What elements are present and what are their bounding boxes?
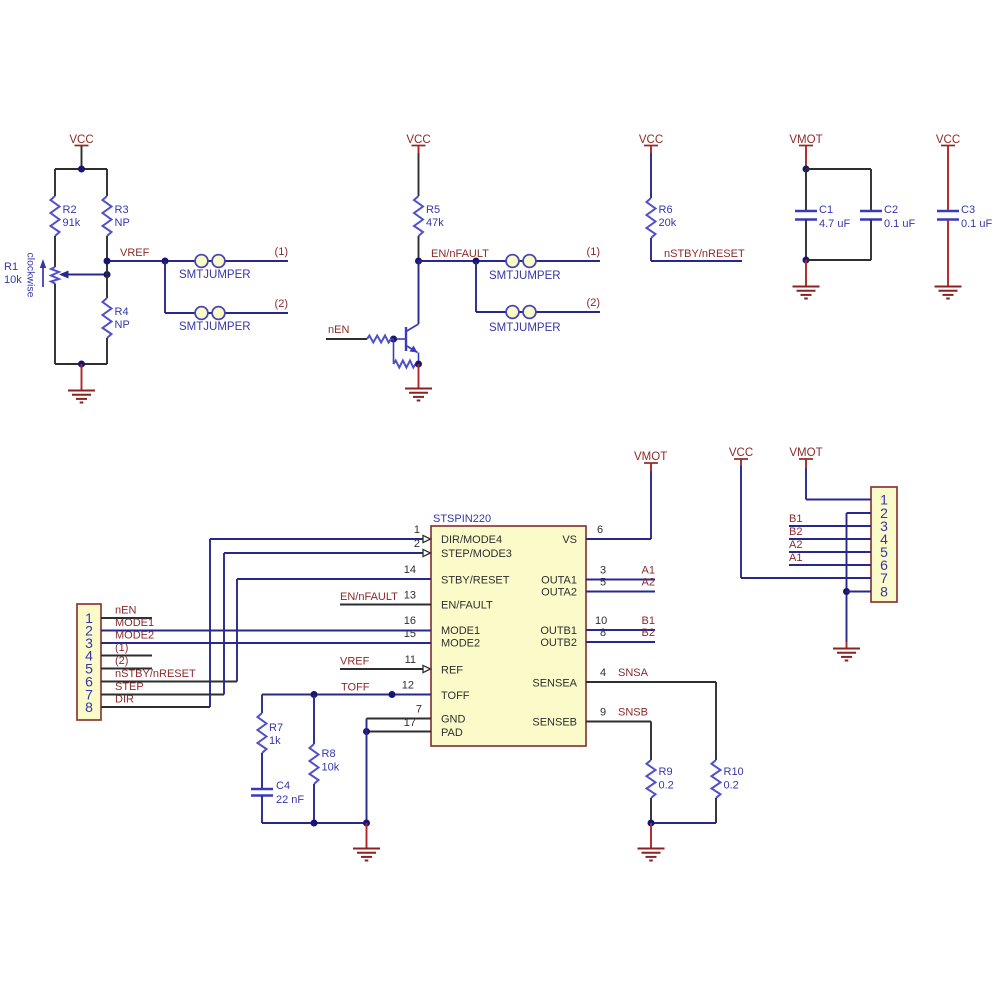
- svg-text:MODE1: MODE1: [115, 617, 154, 629]
- svg-text:STEP: STEP: [115, 681, 144, 693]
- svg-text:nSTBY/nRESET: nSTBY/nRESET: [115, 668, 196, 680]
- svg-text:VMOT: VMOT: [789, 134, 822, 146]
- svg-text:4: 4: [600, 667, 606, 679]
- svg-text:DIR/MODE4: DIR/MODE4: [441, 534, 502, 546]
- svg-text:REF: REF: [441, 665, 463, 677]
- svg-text:TOFF: TOFF: [341, 682, 370, 694]
- svg-text:nSTBY/nRESET: nSTBY/nRESET: [664, 248, 745, 260]
- svg-text:A2: A2: [789, 539, 802, 551]
- svg-text:12: 12: [402, 680, 414, 692]
- svg-text:SENSEB: SENSEB: [532, 717, 577, 729]
- svg-text:EN/nFAULT: EN/nFAULT: [340, 591, 398, 603]
- svg-text:VREF: VREF: [120, 247, 150, 259]
- svg-text:(2): (2): [275, 298, 288, 310]
- svg-text:C2: C2: [884, 204, 898, 216]
- svg-text:91k: 91k: [63, 217, 81, 229]
- svg-text:0.2: 0.2: [724, 780, 739, 792]
- svg-text:TOFF: TOFF: [441, 690, 470, 702]
- svg-text:11: 11: [405, 654, 416, 666]
- svg-text:10k: 10k: [322, 762, 340, 774]
- svg-text:VREF: VREF: [340, 656, 370, 668]
- svg-text:0.2: 0.2: [659, 780, 674, 792]
- svg-text:VCC: VCC: [69, 134, 93, 146]
- svg-text:A1: A1: [642, 565, 655, 577]
- svg-text:9: 9: [600, 707, 606, 719]
- svg-text:R2: R2: [63, 204, 77, 216]
- svg-text:C3: C3: [961, 204, 975, 216]
- svg-text:OUTB1: OUTB1: [540, 625, 577, 637]
- svg-text:MODE2: MODE2: [441, 638, 480, 650]
- svg-text:VCC: VCC: [936, 134, 960, 146]
- svg-text:7: 7: [416, 704, 422, 716]
- svg-text:OUTB2: OUTB2: [540, 637, 577, 649]
- svg-text:8: 8: [600, 627, 606, 639]
- svg-text:VMOT: VMOT: [634, 451, 667, 463]
- svg-text:4.7 uF: 4.7 uF: [819, 218, 850, 230]
- svg-text:C1: C1: [819, 204, 833, 216]
- svg-text:R4: R4: [115, 306, 129, 318]
- svg-text:R5: R5: [426, 204, 440, 216]
- svg-text:A1: A1: [789, 552, 802, 564]
- svg-text:SMTJUMPER: SMTJUMPER: [489, 270, 561, 282]
- svg-text:6: 6: [597, 524, 603, 536]
- svg-text:NP: NP: [115, 319, 130, 331]
- svg-text:0.1 uF: 0.1 uF: [961, 218, 992, 230]
- svg-text:VCC: VCC: [406, 134, 430, 146]
- svg-text:PAD: PAD: [441, 727, 463, 739]
- svg-text:47k: 47k: [426, 217, 444, 229]
- svg-text:B1: B1: [642, 615, 655, 627]
- svg-text:VCC: VCC: [639, 134, 663, 146]
- svg-text:R1: R1: [4, 261, 18, 273]
- svg-text:8: 8: [880, 583, 888, 599]
- svg-text:VS: VS: [562, 534, 577, 546]
- svg-text:STEP/MODE3: STEP/MODE3: [441, 548, 512, 560]
- svg-text:VCC: VCC: [729, 447, 753, 459]
- svg-text:(2): (2): [587, 297, 600, 309]
- svg-text:STSPIN220: STSPIN220: [433, 513, 491, 525]
- svg-text:B1: B1: [789, 513, 802, 525]
- svg-text:VMOT: VMOT: [789, 447, 822, 459]
- svg-text:NP: NP: [115, 217, 130, 229]
- svg-text:10k: 10k: [4, 274, 22, 286]
- svg-text:(1): (1): [275, 246, 288, 258]
- svg-text:22 nF: 22 nF: [276, 794, 304, 806]
- svg-text:8: 8: [85, 699, 93, 715]
- svg-text:SNSA: SNSA: [618, 667, 649, 679]
- svg-text:0.1 uF: 0.1 uF: [884, 218, 915, 230]
- svg-text:nEN: nEN: [328, 324, 349, 336]
- svg-text:C4: C4: [276, 780, 290, 792]
- svg-text:(1): (1): [587, 246, 600, 258]
- svg-text:B2: B2: [789, 526, 802, 538]
- svg-text:1: 1: [414, 524, 420, 536]
- svg-text:R9: R9: [659, 766, 673, 778]
- svg-text:OUTA1: OUTA1: [541, 575, 577, 587]
- svg-text:MODE2: MODE2: [115, 630, 154, 642]
- svg-text:B2: B2: [642, 627, 655, 639]
- svg-text:16: 16: [404, 615, 416, 627]
- svg-text:STBY/RESET: STBY/RESET: [441, 575, 510, 587]
- svg-text:GND: GND: [441, 714, 466, 726]
- svg-text:R7: R7: [269, 722, 283, 734]
- svg-text:SMTJUMPER: SMTJUMPER: [179, 269, 251, 281]
- svg-text:EN/FAULT: EN/FAULT: [441, 600, 493, 612]
- svg-text:R8: R8: [322, 748, 336, 760]
- svg-text:R3: R3: [115, 204, 129, 216]
- svg-text:(2): (2): [115, 655, 128, 667]
- svg-text:nEN: nEN: [115, 605, 136, 617]
- svg-text:DIR: DIR: [115, 694, 134, 706]
- svg-text:SMTJUMPER: SMTJUMPER: [489, 322, 561, 334]
- svg-text:OUTA2: OUTA2: [541, 587, 577, 599]
- svg-text:SNSB: SNSB: [618, 707, 648, 719]
- svg-text:13: 13: [404, 590, 416, 602]
- svg-text:MODE1: MODE1: [441, 625, 480, 637]
- svg-text:1k: 1k: [269, 735, 281, 747]
- svg-text:EN/nFAULT: EN/nFAULT: [431, 248, 489, 260]
- svg-text:R6: R6: [659, 204, 673, 216]
- svg-text:(1): (1): [115, 642, 128, 654]
- svg-text:5: 5: [600, 577, 606, 589]
- svg-text:clockwise: clockwise: [25, 253, 37, 298]
- svg-text:SMTJUMPER: SMTJUMPER: [179, 321, 251, 333]
- svg-text:A2: A2: [642, 577, 655, 589]
- svg-text:3: 3: [600, 565, 606, 577]
- svg-text:R10: R10: [724, 766, 744, 778]
- svg-text:20k: 20k: [659, 217, 677, 229]
- svg-text:10: 10: [595, 615, 607, 627]
- svg-text:14: 14: [404, 564, 416, 576]
- svg-text:SENSEA: SENSEA: [532, 678, 577, 690]
